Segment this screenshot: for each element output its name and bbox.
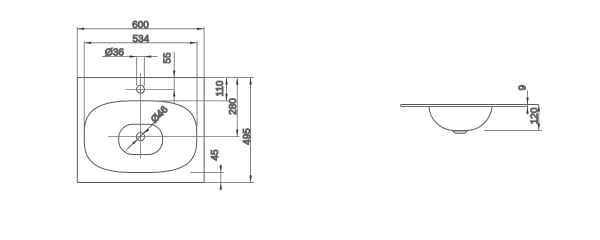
countertop outline (top view square) [77, 78, 204, 183]
inner basin recess rounded rect [119, 124, 163, 154]
svg-text:9: 9 [518, 84, 529, 90]
svg-text:45: 45 [210, 149, 221, 161]
extension line countertop bottom edge (for 45/495) [204, 182, 254, 184]
dimension 45 [220, 165, 222, 191]
faucet horizontal centerline [126, 88, 175, 90]
side view bowl profile [429, 107, 492, 131]
svg-text:Ø46: Ø46 [149, 104, 170, 125]
dimension 495 [250, 78, 252, 183]
side view deck slab top line [401, 104, 539, 106]
svg-text:120: 120 [530, 107, 541, 124]
drain diameter leader Ø46 [126, 115, 162, 151]
side view drain fitting [452, 131, 467, 134]
dimension 120 (bowl depth) [538, 105, 540, 131]
dimension 280 [236, 78, 238, 137]
dimension 9 (deck thickness) [527, 91, 529, 115]
basin oval outline [84, 101, 197, 173]
dimension 600 [77, 27, 204, 78]
svg-text:534: 534 [132, 34, 149, 45]
side view deck slab bottom line [401, 106, 527, 108]
extension line countertop top edge (for 110/280/495) [204, 77, 254, 79]
side view deck slab left cap [399, 105, 402, 107]
svg-text:495: 495 [242, 128, 253, 145]
extension line oval bottom (for 45) [190, 172, 224, 174]
faucet hole circle [137, 85, 145, 93]
dimension 534 [84, 41, 197, 126]
dimension Ø36 (faucet hole) [102, 57, 158, 86]
svg-text:55: 55 [163, 52, 174, 64]
extension line bowl bottom (for 120) [484, 130, 542, 132]
drain hole circle [136, 133, 144, 141]
dimension 110 [226, 78, 228, 101]
extension line oval top (for 110) [160, 100, 229, 102]
dimension 55 (deck edge to faucet center) [173, 52, 175, 103]
svg-text:110: 110 [215, 80, 226, 96]
svg-text:600: 600 [132, 20, 149, 31]
vertical centerline through faucet and drain [140, 74, 142, 159]
svg-text:280: 280 [228, 98, 239, 115]
drain horizontal centerline / extension for 280 [108, 136, 240, 138]
svg-text:Ø36: Ø36 [105, 48, 124, 59]
